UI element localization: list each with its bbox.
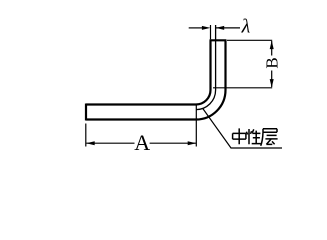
part outline: outer contour (bottom face + outer bend arc + outer vertical face): [86, 40, 226, 119]
dimension B: dimension line lower segment: [271, 71, 273, 88]
label 中性层: character 性: [246, 129, 260, 144]
dimension A: left arrowhead (pointing left): [86, 141, 95, 145]
dimension B: bottom arrowhead (pointing down): [270, 79, 274, 88]
svg-text:B: B: [262, 57, 281, 68]
svg-text:λ: λ: [241, 16, 251, 38]
extension line top for B dimension: [227, 39, 272, 41]
extension line bottom for B dimension: [213, 87, 272, 89]
dimension A: right arrowhead (pointing right): [188, 141, 197, 145]
svg-text:A: A: [134, 130, 150, 155]
dimension lambda: right dimension line: [216, 27, 240, 29]
part outline: left end cap: [85, 104, 87, 121]
label 中性层: character 中: [233, 128, 246, 144]
dimension B: dimension line upper segment: [271, 41, 273, 56]
part outline: inner contour (top face + inner bend arc + inner vertical face): [86, 40, 211, 104]
part outline: top edge of vertical flange: [210, 39, 227, 41]
extension line of inner face for lambda dimension: [210, 25, 212, 39]
dimension lambda: left dimension line: [189, 27, 203, 29]
dimension lambda: right arrowhead (pointing left): [216, 26, 225, 30]
extension line right for A dimension (from bend tangent point): [195, 105, 197, 147]
label 中性层: character 层: [261, 129, 278, 146]
neutral layer line (straight part + arc, thin): [196, 25, 216, 110]
dimension lambda: left arrowhead (pointing right): [202, 26, 211, 30]
dimension B: top arrowhead (pointing up): [270, 41, 274, 50]
extension line left for A dimension: [85, 124, 87, 147]
dimension A: dimension line left segment: [86, 142, 134, 144]
leader line to neutral layer label: [203, 108, 282, 148]
dimension A: dimension line right segment: [150, 142, 196, 144]
